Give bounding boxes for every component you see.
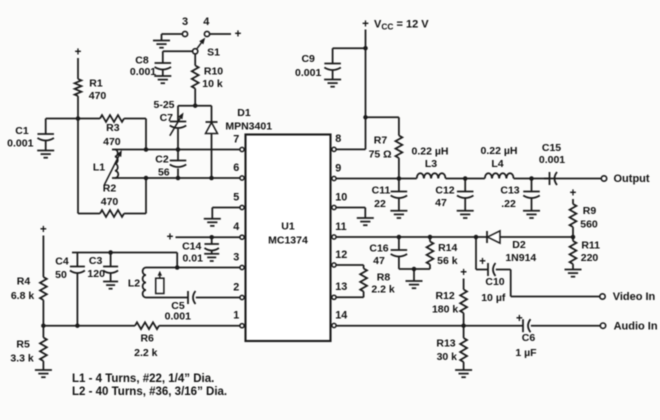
wire pin11 line xyxy=(336,236,487,238)
svg-text:56: 56 xyxy=(158,167,170,179)
ground R11 xyxy=(565,269,582,271)
junction VCC/R7 xyxy=(363,115,368,120)
wire L4 to C15 xyxy=(514,178,549,180)
svg-text:R6: R6 xyxy=(140,332,154,344)
svg-text:C6: C6 xyxy=(522,332,536,344)
pin 1 xyxy=(233,310,244,328)
junction pin3 riser xyxy=(175,265,180,270)
svg-text:L3: L3 xyxy=(425,158,437,170)
svg-text:+: + xyxy=(75,47,82,59)
junction C16 tap xyxy=(397,235,402,240)
svg-text:C16: C16 xyxy=(369,243,388,255)
svg-text:0.22 µH: 0.22 µH xyxy=(481,145,518,157)
wire terminal 3 left xyxy=(162,33,183,35)
svg-text:C10: C10 xyxy=(485,276,504,288)
svg-text:0.001: 0.001 xyxy=(539,154,565,166)
svg-text:14: 14 xyxy=(335,309,347,321)
pin 4 xyxy=(233,221,244,239)
wire pin6 line xyxy=(112,177,240,179)
inductor L4 0.22uH xyxy=(481,145,518,179)
svg-text:0.001: 0.001 xyxy=(130,66,156,78)
pin 6 xyxy=(233,162,244,180)
wire pin4 line xyxy=(176,236,240,238)
svg-text:3.3 k: 3.3 k xyxy=(10,353,34,365)
wire R12 top xyxy=(463,279,465,290)
wire C10 branch xyxy=(475,237,477,270)
svg-text:MPN3401: MPN3401 xyxy=(225,121,272,133)
wire node B horizontal xyxy=(178,105,212,107)
junction C13 tap xyxy=(529,176,534,181)
wire pin3 line xyxy=(177,267,240,269)
svg-text:C12: C12 xyxy=(435,185,454,197)
svg-text:7: 7 xyxy=(233,133,239,145)
svg-text:MC1374: MC1374 xyxy=(268,235,308,247)
junction R2/pin6 line xyxy=(144,176,149,181)
ground C11 xyxy=(390,210,407,212)
pin 10 xyxy=(332,191,347,209)
wire pin12 to R8 xyxy=(336,264,364,266)
diode D1 MPN3401 xyxy=(206,106,273,178)
wire gnd stub xyxy=(413,269,415,281)
svg-text:R4: R4 xyxy=(17,276,31,288)
junction R9/R11 xyxy=(571,235,576,240)
switch S1 pole xyxy=(193,49,198,54)
terminal 3 xyxy=(182,16,188,36)
junction C14 xyxy=(209,235,214,240)
wire C8 bottom xyxy=(162,70,164,76)
wire R10 bottom xyxy=(194,89,196,106)
terminal Audio In xyxy=(600,321,658,333)
svg-text:75 Ω: 75 Ω xyxy=(369,149,392,161)
svg-text:D2: D2 xyxy=(512,239,526,251)
svg-text:10 µf: 10 µf xyxy=(481,292,506,304)
svg-text:L2: L2 xyxy=(128,278,140,290)
pin 11 xyxy=(332,221,347,239)
svg-text:470: 470 xyxy=(103,136,121,148)
svg-text:+: + xyxy=(570,188,577,200)
svg-text:1 µF: 1 µF xyxy=(515,347,537,359)
svg-text:Video In: Video In xyxy=(613,291,656,303)
capacitor C6 1uF xyxy=(515,319,537,359)
resistor R10 10k xyxy=(192,65,223,90)
inductor L1 variable xyxy=(93,150,122,185)
svg-text:R11: R11 xyxy=(581,240,600,252)
node A junction xyxy=(76,116,81,121)
node B junction xyxy=(193,103,198,108)
svg-text:C4: C4 xyxy=(55,256,69,268)
svg-text:.22: .22 xyxy=(501,198,516,210)
junction C2 top xyxy=(176,147,181,152)
svg-text:12: 12 xyxy=(335,249,347,261)
resistor R11 220 xyxy=(570,240,601,265)
svg-text:6: 6 xyxy=(233,162,239,174)
capacitor C3 120 xyxy=(87,253,118,282)
wire R2 to riser xyxy=(124,213,146,215)
wire pin5 to ground xyxy=(212,207,240,209)
wire R4 top xyxy=(42,236,44,278)
svg-text:4: 4 xyxy=(233,221,239,233)
svg-text:L1 - 4 Turns, #22, 1/4” Dia.: L1 - 4 Turns, #22, 1/4” Dia. xyxy=(72,373,214,385)
svg-text:+: + xyxy=(40,224,47,236)
wire C9 tap xyxy=(333,47,366,49)
wire C15 to output xyxy=(544,178,601,180)
switch S1 arm xyxy=(197,43,201,49)
wire R9 top xyxy=(572,199,574,204)
svg-text:R1: R1 xyxy=(89,78,103,90)
wire pin14 line xyxy=(336,325,523,327)
svg-text:220: 220 xyxy=(581,252,599,264)
junction C10 tap xyxy=(474,235,479,240)
wire L2 top xyxy=(146,267,177,269)
svg-text:U1: U1 xyxy=(281,221,295,233)
wire VCC down xyxy=(365,30,367,118)
svg-text:+: + xyxy=(235,28,242,40)
svg-text:+: + xyxy=(460,267,467,279)
wire R1 top xyxy=(77,58,79,79)
junction D1/pin6 line xyxy=(209,176,214,181)
svg-text:0.01: 0.01 xyxy=(182,253,203,265)
svg-text:R9: R9 xyxy=(583,205,597,217)
resistor R13 30k xyxy=(436,338,467,364)
pin 8 xyxy=(332,133,341,151)
wire pin1 line left xyxy=(43,325,135,327)
svg-text:5-25: 5-25 xyxy=(153,99,174,111)
svg-text:R8: R8 xyxy=(377,272,391,284)
wire pin3 riser xyxy=(176,253,178,268)
wire R7 bottom xyxy=(398,158,400,179)
svg-text:470: 470 xyxy=(89,90,107,102)
capacitor C11 22 xyxy=(372,179,407,211)
wire left rail xyxy=(77,119,79,214)
ground C9 xyxy=(324,79,341,81)
wire C4/C3 top rail xyxy=(72,252,177,254)
junction C9 tap xyxy=(363,46,368,51)
op-amp U1 MC1374 xyxy=(246,135,331,342)
wire node A to C1 xyxy=(46,118,78,120)
resistor R4 6.8k xyxy=(11,276,47,303)
wire pin9 line xyxy=(336,178,417,180)
pin 13 xyxy=(332,281,347,299)
svg-text:560: 560 xyxy=(580,219,598,231)
svg-text:C8: C8 xyxy=(135,55,149,67)
wire R12 bottom xyxy=(463,313,465,326)
svg-text:30 k: 30 k xyxy=(437,351,458,363)
svg-text:3: 3 xyxy=(182,16,188,28)
svg-text:Output: Output xyxy=(614,173,650,185)
wire rail to R2 xyxy=(78,213,100,215)
svg-text:0.001: 0.001 xyxy=(7,138,33,150)
svg-text:47: 47 xyxy=(435,197,447,209)
wire L2 bottom xyxy=(146,297,188,299)
svg-text:C14: C14 xyxy=(182,241,201,253)
svg-text:50: 50 xyxy=(55,269,67,281)
svg-text:47: 47 xyxy=(373,255,385,267)
resistor R6 2.2k xyxy=(134,322,159,358)
capacitor C4 50 xyxy=(55,253,85,326)
svg-text:6.8 k: 6.8 k xyxy=(11,290,35,302)
junction R4/R5 xyxy=(41,323,46,328)
wire R3 to pin7 line xyxy=(124,118,146,120)
wire pin10 to ground xyxy=(336,207,365,209)
wire R8 to pin13 xyxy=(363,292,365,298)
junction C4 bottom xyxy=(75,323,80,328)
resistor R14 56k xyxy=(427,242,458,268)
resistor R3 470 xyxy=(100,115,124,148)
ground pin5 xyxy=(204,218,221,220)
capacitor C10 10uF xyxy=(481,263,506,304)
svg-text:S1: S1 xyxy=(207,46,220,58)
capacitor C1 0.001 xyxy=(7,125,54,150)
svg-text:0.001: 0.001 xyxy=(165,311,191,323)
diode D2 1N914 xyxy=(487,231,573,264)
resistor R5 3.3k xyxy=(10,338,46,365)
svg-text:56 k: 56 k xyxy=(437,255,458,267)
wire R1 bottom to node A xyxy=(77,96,79,119)
svg-text:L4: L4 xyxy=(491,158,503,170)
svg-text:D1: D1 xyxy=(237,107,251,119)
wire node A to R3 xyxy=(78,118,100,120)
wire C5 to pin2 xyxy=(196,297,240,299)
wire VCC to R7 xyxy=(366,116,399,118)
svg-text:13: 13 xyxy=(335,281,347,293)
wire C16/R14 bottom xyxy=(399,268,430,270)
terminal 4 xyxy=(203,16,210,36)
wire pin7 line xyxy=(112,149,240,151)
ground C16/R14 xyxy=(406,280,423,282)
svg-text:1: 1 xyxy=(233,310,239,322)
svg-text:C13: C13 xyxy=(500,185,519,197)
inductor L2 xyxy=(128,268,164,298)
svg-text:11: 11 xyxy=(335,221,346,233)
resistor R1 xyxy=(75,78,107,103)
resistor R7 75ohm xyxy=(369,134,403,160)
svg-text:4: 4 xyxy=(203,16,210,28)
ground C3 xyxy=(103,281,118,283)
svg-text:2.2 k: 2.2 k xyxy=(134,347,158,359)
svg-text:9: 9 xyxy=(335,162,341,174)
svg-text:+: + xyxy=(167,232,174,244)
junction R14 tap xyxy=(428,235,433,240)
capacitor C2 56 xyxy=(155,150,186,179)
svg-text:C3: C3 xyxy=(89,255,103,267)
svg-text:+: + xyxy=(516,313,523,325)
svg-text:R14: R14 xyxy=(438,242,457,254)
svg-text:R10: R10 xyxy=(204,65,223,77)
pin 14 xyxy=(332,309,347,327)
svg-text:120: 120 xyxy=(87,268,105,280)
resistor R2 470 xyxy=(100,183,124,217)
svg-text:22: 22 xyxy=(374,198,386,210)
svg-text:1N914: 1N914 xyxy=(505,252,536,264)
svg-text:L1: L1 xyxy=(93,162,105,174)
wire C10 to video xyxy=(496,269,511,271)
svg-text:R13: R13 xyxy=(436,338,455,350)
resistor R12 180k xyxy=(432,290,467,316)
svg-text:2.2 k: 2.2 k xyxy=(371,284,395,296)
svg-text:C15: C15 xyxy=(542,142,561,154)
wire C6 to audio xyxy=(531,325,601,327)
capacitor C9 0.001 xyxy=(295,53,341,79)
svg-text:10 k: 10 k xyxy=(202,78,223,90)
wire R11 stubs xyxy=(572,237,574,241)
svg-text:+: + xyxy=(479,256,486,268)
junction R3/pin7 line xyxy=(144,147,149,152)
ground C1 xyxy=(37,150,54,152)
capacitor C8 0.001 xyxy=(130,55,171,79)
wire R5 gnd stub xyxy=(42,326,44,338)
svg-text:R5: R5 xyxy=(16,339,30,351)
svg-text:0.001: 0.001 xyxy=(295,67,321,79)
pin 12 xyxy=(332,249,347,267)
pin 7 xyxy=(233,133,244,151)
svg-text:C9: C9 xyxy=(301,53,315,65)
svg-text:C1: C1 xyxy=(15,125,29,137)
wire S1 to R10 xyxy=(194,54,196,66)
pin 9 xyxy=(332,162,341,180)
terminal Video In xyxy=(600,291,656,303)
svg-text:470: 470 xyxy=(101,196,119,208)
wire C1 top xyxy=(45,119,47,135)
wire C9 bottom xyxy=(332,71,334,80)
ground C8 xyxy=(154,75,171,77)
capacitor C15 0.001 xyxy=(539,142,565,185)
svg-text:5: 5 xyxy=(233,191,239,203)
svg-text:2: 2 xyxy=(233,281,239,293)
ground C12 xyxy=(457,210,474,212)
capacitor C13 .22 xyxy=(500,179,539,211)
svg-text:3: 3 xyxy=(233,251,239,263)
wire R4 bottom xyxy=(42,300,44,326)
wire L3 to L4 xyxy=(446,178,485,180)
resistor R8 2.2k xyxy=(360,269,395,296)
svg-text:8: 8 xyxy=(335,133,341,145)
junction C2 bottom xyxy=(176,176,181,181)
junction R7/pin9 line xyxy=(397,176,402,181)
inductor L3 0.22uH xyxy=(412,145,449,178)
svg-text:180 k: 180 k xyxy=(432,304,458,316)
ground C14 xyxy=(204,253,219,255)
terminal Output xyxy=(601,173,650,185)
wire terminal 4 right xyxy=(210,33,232,35)
junction R12/audio line xyxy=(461,323,466,328)
capacitor C7 variable xyxy=(160,106,187,150)
pin 2 xyxy=(233,281,244,299)
svg-text:Audio In: Audio In xyxy=(614,321,658,333)
svg-text:C11: C11 xyxy=(372,185,391,197)
capacitor C14 0.01 xyxy=(182,237,219,264)
wire R13 stubs xyxy=(463,326,465,338)
svg-text:10: 10 xyxy=(335,191,347,203)
wire R6 to pin1 xyxy=(159,325,240,327)
junction C3 top xyxy=(108,250,113,255)
pin 5 xyxy=(233,191,244,209)
ground pin10 xyxy=(357,217,374,219)
capacitor C16 47 xyxy=(369,237,407,269)
ground terminal 3 xyxy=(153,40,170,42)
svg-text:R12: R12 xyxy=(435,290,454,302)
svg-text:R3: R3 xyxy=(106,122,120,134)
svg-text:C7: C7 xyxy=(160,112,174,124)
svg-text:+: + xyxy=(362,18,369,30)
junction C12 tap xyxy=(463,176,468,181)
wire terminal 3 gnd stub xyxy=(161,34,163,41)
ground C13 xyxy=(523,210,540,212)
svg-text:L2 - 40 Turns, #36, 3/16” Di: L2 - 40 Turns, #36, 3/16” Dia. xyxy=(72,386,227,398)
node VCC supply xyxy=(362,18,429,31)
wire C1 bottom xyxy=(45,141,47,151)
junction C16/R14 gnd xyxy=(412,267,417,272)
capacitor C12 47 xyxy=(435,179,473,211)
pin 3 xyxy=(233,251,244,269)
resistor R9 560 xyxy=(570,204,598,231)
svg-text:R7: R7 xyxy=(374,134,388,146)
svg-text:C2: C2 xyxy=(155,154,169,166)
ground R13 xyxy=(455,369,472,371)
wire R9 bottom xyxy=(572,227,574,237)
wire VCC to pin8 xyxy=(365,117,367,149)
wire S1 to C8 xyxy=(163,50,193,52)
svg-text:0.22 µH: 0.22 µH xyxy=(412,145,449,157)
capacitor C5 0.001 xyxy=(165,291,196,323)
wire R14 stubs xyxy=(429,237,431,242)
ground R5 xyxy=(35,369,52,371)
